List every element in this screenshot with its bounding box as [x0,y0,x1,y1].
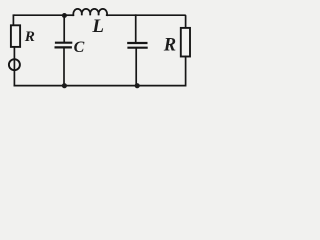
node junction bottom of C2 [135,83,140,88]
node junction top of C1 [62,13,67,18]
wire resistor R2 to bottom rail [14,57,185,86]
svg-text:C: C [74,39,85,56]
svg-text:R: R [24,28,35,45]
inductor L [73,9,107,15]
wire resistor R1 to source [13,47,15,59]
resistor R1 [11,25,20,47]
resistor R2 [181,28,190,57]
capacitor C1 [56,43,72,48]
source V1 [9,59,20,70]
wire C1 bottom lead [63,48,65,86]
wire C2 bottom lead [135,48,137,85]
svg-text:L: L [91,16,104,37]
svg-text:R: R [163,35,176,55]
wire top rail left segment [13,14,64,16]
wire C1 top lead [63,15,65,42]
wire left vertical top [12,15,15,25]
wire junction to inductor [64,14,73,16]
capacitor C2 [128,43,146,48]
wire C2 top lead [135,15,137,42]
node junction bottom of C1 [62,83,67,88]
wire top rail right segment [107,15,186,28]
wire through source to bottom rail [13,59,15,85]
